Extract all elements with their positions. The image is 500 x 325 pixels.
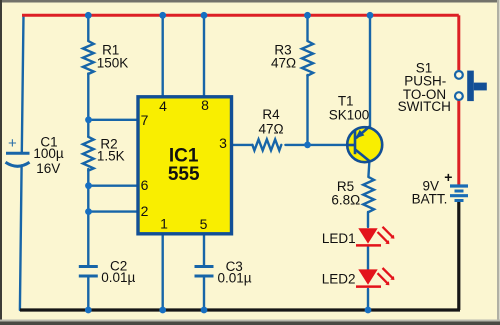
svg-text:5: 5: [200, 216, 208, 232]
svg-text:T1: T1: [338, 93, 354, 108]
svg-text:1.5K: 1.5K: [97, 149, 125, 164]
svg-text:150K: 150K: [97, 55, 129, 70]
svg-text:8: 8: [201, 97, 209, 113]
svg-text:1: 1: [160, 215, 168, 231]
svg-text:BATT.: BATT.: [412, 191, 448, 206]
svg-text:100µ: 100µ: [33, 146, 64, 161]
svg-text:555: 555: [168, 164, 200, 185]
svg-text:4: 4: [159, 98, 167, 114]
svg-text:47Ω: 47Ω: [258, 121, 283, 136]
svg-text:LED1: LED1: [322, 231, 356, 246]
svg-text:3: 3: [219, 135, 227, 151]
svg-text:R4: R4: [262, 107, 280, 122]
svg-text:SWITCH: SWITCH: [398, 99, 451, 114]
svg-text:+: +: [8, 135, 17, 152]
svg-text:16V: 16V: [36, 161, 60, 176]
svg-text:47Ω: 47Ω: [271, 56, 296, 71]
svg-text:2: 2: [141, 203, 149, 219]
svg-text:0.01µ: 0.01µ: [217, 271, 251, 286]
svg-text:SK100: SK100: [329, 108, 370, 123]
svg-text:6: 6: [141, 177, 149, 193]
svg-text:7: 7: [141, 112, 149, 128]
svg-text:+: +: [444, 169, 452, 185]
svg-text:LED2: LED2: [322, 272, 356, 287]
svg-text:6.8Ω: 6.8Ω: [331, 192, 360, 207]
svg-text:0.01µ: 0.01µ: [101, 270, 135, 285]
